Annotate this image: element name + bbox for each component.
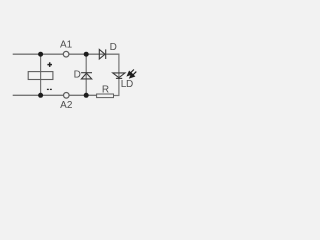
terminal A1	[63, 51, 69, 57]
wire LED branch vertical	[118, 54, 120, 95]
junction bottom-mid	[84, 93, 89, 98]
diode D (freewheeling, across coil)	[81, 73, 92, 79]
svg-text:LD: LD	[121, 79, 133, 90]
wire resistor to LED branch	[113, 95, 119, 97]
LED light arrows	[128, 70, 137, 78]
wire coil branch vertical	[40, 54, 42, 95]
polarity plus mark	[47, 62, 52, 67]
wire top rail	[13, 53, 120, 55]
diode D (series, top rail)	[99, 49, 105, 59]
svg-text:D: D	[110, 42, 117, 53]
junction bottom-left	[38, 93, 43, 98]
terminal A2	[64, 93, 70, 99]
junction top-mid	[84, 52, 89, 57]
junction top-left	[38, 52, 43, 57]
resistor R	[97, 94, 114, 98]
svg-text:A2: A2	[60, 100, 73, 111]
wire bottom rail	[13, 94, 97, 96]
LED LD	[113, 73, 125, 79]
svg-text:R: R	[102, 84, 109, 95]
relay coil K1	[28, 72, 53, 80]
polarity minus mark	[47, 88, 52, 90]
svg-text:D: D	[74, 69, 81, 80]
wire diode branch vertical	[85, 54, 87, 95]
svg-text:A1: A1	[60, 40, 73, 51]
